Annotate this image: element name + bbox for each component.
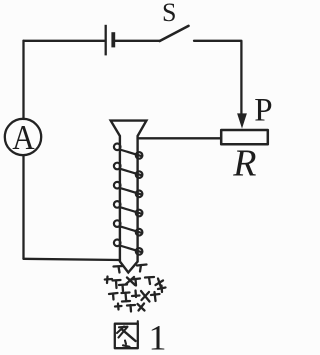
rheostat R body [221,130,268,144]
ammeter A [5,119,41,158]
wire switch to right corner and down [194,41,241,115]
svg-text:P: P [254,92,272,128]
svg-text:S: S [162,0,176,27]
slider arrow P [237,113,247,128]
wire left vertical lower segment [22,155,24,259]
wire battery to switch [115,40,160,42]
svg-text:1: 1 [149,318,167,355]
svg-text:R: R [232,143,256,185]
battery cell [106,25,114,56]
switch S blade [160,26,189,41]
svg-text:A: A [12,120,35,158]
iron filings [105,265,166,312]
screw core (electromagnet) [111,121,147,273]
wire top-left horizontal segment [24,40,105,42]
wire left vertical upper segment [22,41,24,119]
wire rheostat to screw head [138,137,221,139]
coil winding [114,144,143,255]
wire bottom horizontal segment [24,259,121,260]
caption character 图 [115,321,138,348]
